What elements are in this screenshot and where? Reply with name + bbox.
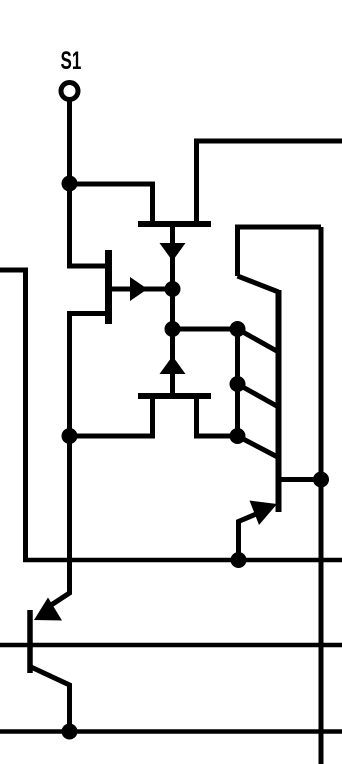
wire top loop feed to Q3 base bbox=[238, 227, 322, 276]
left input wire bbox=[0, 270, 26, 560]
node C junction dot bbox=[62, 428, 78, 444]
transistor Q1 channel bar bbox=[105, 250, 112, 324]
transistor M1 channel bar bbox=[138, 221, 211, 227]
wire node E1 to node E2 bbox=[235, 329, 240, 384]
wire node C to Q4 emitter bbox=[52, 436, 70, 605]
Q3 emitter wire bbox=[239, 509, 269, 560]
wire Q1 source to node C bbox=[70, 314, 111, 437]
svg-text:S1: S1 bbox=[61, 47, 82, 75]
Q3 collector 4 wire to node F bbox=[280, 477, 321, 482]
wire S1 terminal to node A bbox=[67, 100, 72, 184]
node E1 junction dot bbox=[230, 321, 246, 337]
Q3 collector 3 diagonal bbox=[238, 436, 279, 458]
rail bus 2 bbox=[0, 643, 342, 648]
transistor Q4 base bar bbox=[27, 610, 33, 673]
node B junction dot bbox=[165, 281, 181, 297]
rail bus 1 bbox=[23, 558, 342, 563]
terminal S1 bbox=[61, 83, 78, 100]
transistor M2 channel bar bbox=[138, 393, 211, 399]
transistor Q3 base bar (multi-collector) bbox=[276, 290, 282, 512]
node E3 junction dot bbox=[230, 428, 246, 444]
node G junction dot bbox=[231, 552, 247, 568]
node A junction dot bbox=[62, 176, 78, 192]
M1 substrate arrow pointing down bbox=[160, 243, 186, 261]
wire node A to M1 left lead bbox=[70, 184, 153, 223]
Q1 gate wire to node B bbox=[112, 287, 173, 292]
Q3 emitter arrow pointing up-right bbox=[250, 501, 278, 526]
wire M2 right lead to node E3 bbox=[197, 397, 238, 436]
rail bus 3 bbox=[0, 729, 342, 734]
M2 substrate arrow pointing up bbox=[160, 356, 186, 374]
diagonal wire to Q3 bar top bbox=[238, 276, 279, 292]
wire M1 right lead to top rail bbox=[197, 141, 342, 223]
Q4 collector wire bbox=[31, 667, 70, 732]
wire node A to Q1 drain bbox=[70, 184, 111, 267]
wire M1 substrate lead bbox=[170, 227, 175, 289]
wire M2 left lead to node C bbox=[70, 397, 153, 436]
wire node D to node E1 bbox=[173, 327, 238, 332]
Q3 collector 2 diagonal bbox=[238, 384, 279, 407]
wire node B to node D bbox=[170, 289, 175, 329]
node D junction dot bbox=[165, 321, 181, 337]
Q1 gate arrow pointing right bbox=[130, 277, 148, 301]
node F junction dot bbox=[313, 472, 329, 488]
Q3 collector 1 diagonal bbox=[238, 329, 279, 352]
right rail vertical bbox=[319, 227, 324, 764]
node E2 junction dot bbox=[230, 376, 246, 392]
Q4 emitter arrow pointing down-left bbox=[34, 598, 62, 621]
wire M2 substrate lead bbox=[170, 329, 175, 394]
node H junction dot bbox=[62, 724, 78, 740]
wire node E2 to node E3 bbox=[235, 384, 240, 436]
